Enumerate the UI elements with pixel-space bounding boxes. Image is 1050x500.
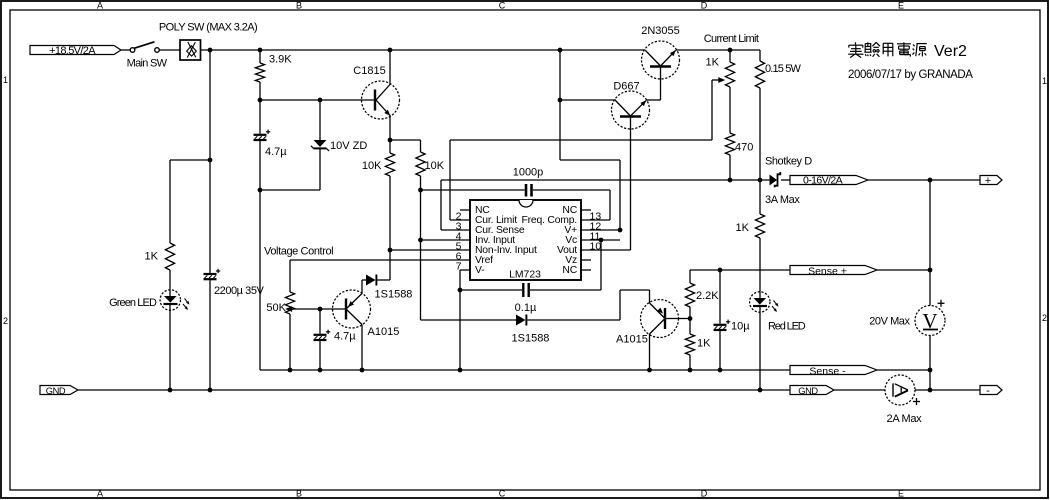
svg-text:D: D xyxy=(701,1,708,11)
svg-text:GND: GND xyxy=(46,386,66,396)
svg-text:2.2K: 2.2K xyxy=(696,290,719,302)
svg-text:10K: 10K xyxy=(425,160,445,172)
svg-text:470: 470 xyxy=(735,142,753,154)
svg-text:A: A xyxy=(97,1,103,11)
svg-text:NC: NC xyxy=(562,265,577,276)
svg-text:1: 1 xyxy=(1042,76,1047,86)
svg-text:Red LED: Red LED xyxy=(768,321,806,333)
svg-text:A1015: A1015 xyxy=(616,334,648,346)
svg-text:E: E xyxy=(898,1,904,11)
svg-text:50K: 50K xyxy=(266,302,286,314)
svg-text:1000p: 1000p xyxy=(513,167,544,179)
svg-text:Current Limit: Current Limit xyxy=(704,33,759,45)
svg-text:3.9K: 3.9K xyxy=(269,54,292,66)
svg-text:3A Max: 3A Max xyxy=(765,194,800,206)
svg-text:1S1588: 1S1588 xyxy=(512,333,550,345)
svg-text:10: 10 xyxy=(590,241,602,253)
svg-text:0-16V/2A: 0-16V/2A xyxy=(803,175,843,187)
svg-text:2N3055: 2N3055 xyxy=(641,25,680,37)
svg-text:1S1588: 1S1588 xyxy=(375,289,413,301)
svg-text:C1815: C1815 xyxy=(353,65,385,77)
svg-text:1K: 1K xyxy=(145,251,159,263)
svg-text:1: 1 xyxy=(3,75,8,85)
svg-text:A: A xyxy=(97,488,103,498)
svg-text:-: - xyxy=(986,385,990,397)
svg-text:2: 2 xyxy=(3,316,8,326)
svg-text:4.7µ: 4.7µ xyxy=(265,146,287,158)
svg-text:0.1µ: 0.1µ xyxy=(515,302,537,314)
svg-text:2006/07/17 by GRANADA: 2006/07/17 by GRANADA xyxy=(848,69,973,81)
svg-text:2: 2 xyxy=(1042,313,1047,323)
svg-text:Ver2: Ver2 xyxy=(934,43,967,60)
svg-text:D667: D667 xyxy=(613,81,639,93)
svg-text:10V ZD: 10V ZD xyxy=(330,140,367,152)
svg-text:10µ: 10µ xyxy=(731,321,750,333)
svg-text:20V Max: 20V Max xyxy=(869,316,910,328)
svg-text:1K: 1K xyxy=(697,338,711,350)
svg-text:C: C xyxy=(499,488,506,498)
svg-text:A1015: A1015 xyxy=(368,326,400,338)
svg-text:LM723: LM723 xyxy=(509,270,541,281)
svg-text:0.15 5W: 0.15 5W xyxy=(765,63,801,75)
svg-text:V-: V- xyxy=(475,265,484,276)
svg-text:7: 7 xyxy=(456,261,462,273)
svg-text:Sense -: Sense - xyxy=(809,366,846,378)
svg-text:C: C xyxy=(499,1,506,11)
svg-text:1K: 1K xyxy=(736,222,750,234)
svg-text:+: + xyxy=(985,175,991,187)
svg-text:POLY SW (MAX 3.2A): POLY SW (MAX 3.2A) xyxy=(159,22,257,34)
svg-text:D: D xyxy=(701,488,708,498)
svg-text:Sense +: Sense + xyxy=(808,266,847,278)
svg-text:4.7µ: 4.7µ xyxy=(334,331,356,343)
svg-text:2A Max: 2A Max xyxy=(887,413,923,425)
svg-text:Shotkey D: Shotkey D xyxy=(765,156,812,168)
svg-text:GND: GND xyxy=(798,386,818,396)
svg-text:B: B xyxy=(296,488,302,498)
svg-text:E: E xyxy=(898,488,904,498)
svg-text:Voltage Control: Voltage Control xyxy=(264,246,333,258)
svg-text:Main SW: Main SW xyxy=(127,58,168,70)
svg-text:+18.5V/2A: +18.5V/2A xyxy=(49,45,96,57)
svg-text:10K: 10K xyxy=(362,160,382,172)
svg-text:2200µ 35V: 2200µ 35V xyxy=(214,285,265,297)
svg-text:1K: 1K xyxy=(706,57,720,69)
svg-text:Green LED: Green LED xyxy=(109,297,157,309)
svg-text:B: B xyxy=(296,1,302,11)
